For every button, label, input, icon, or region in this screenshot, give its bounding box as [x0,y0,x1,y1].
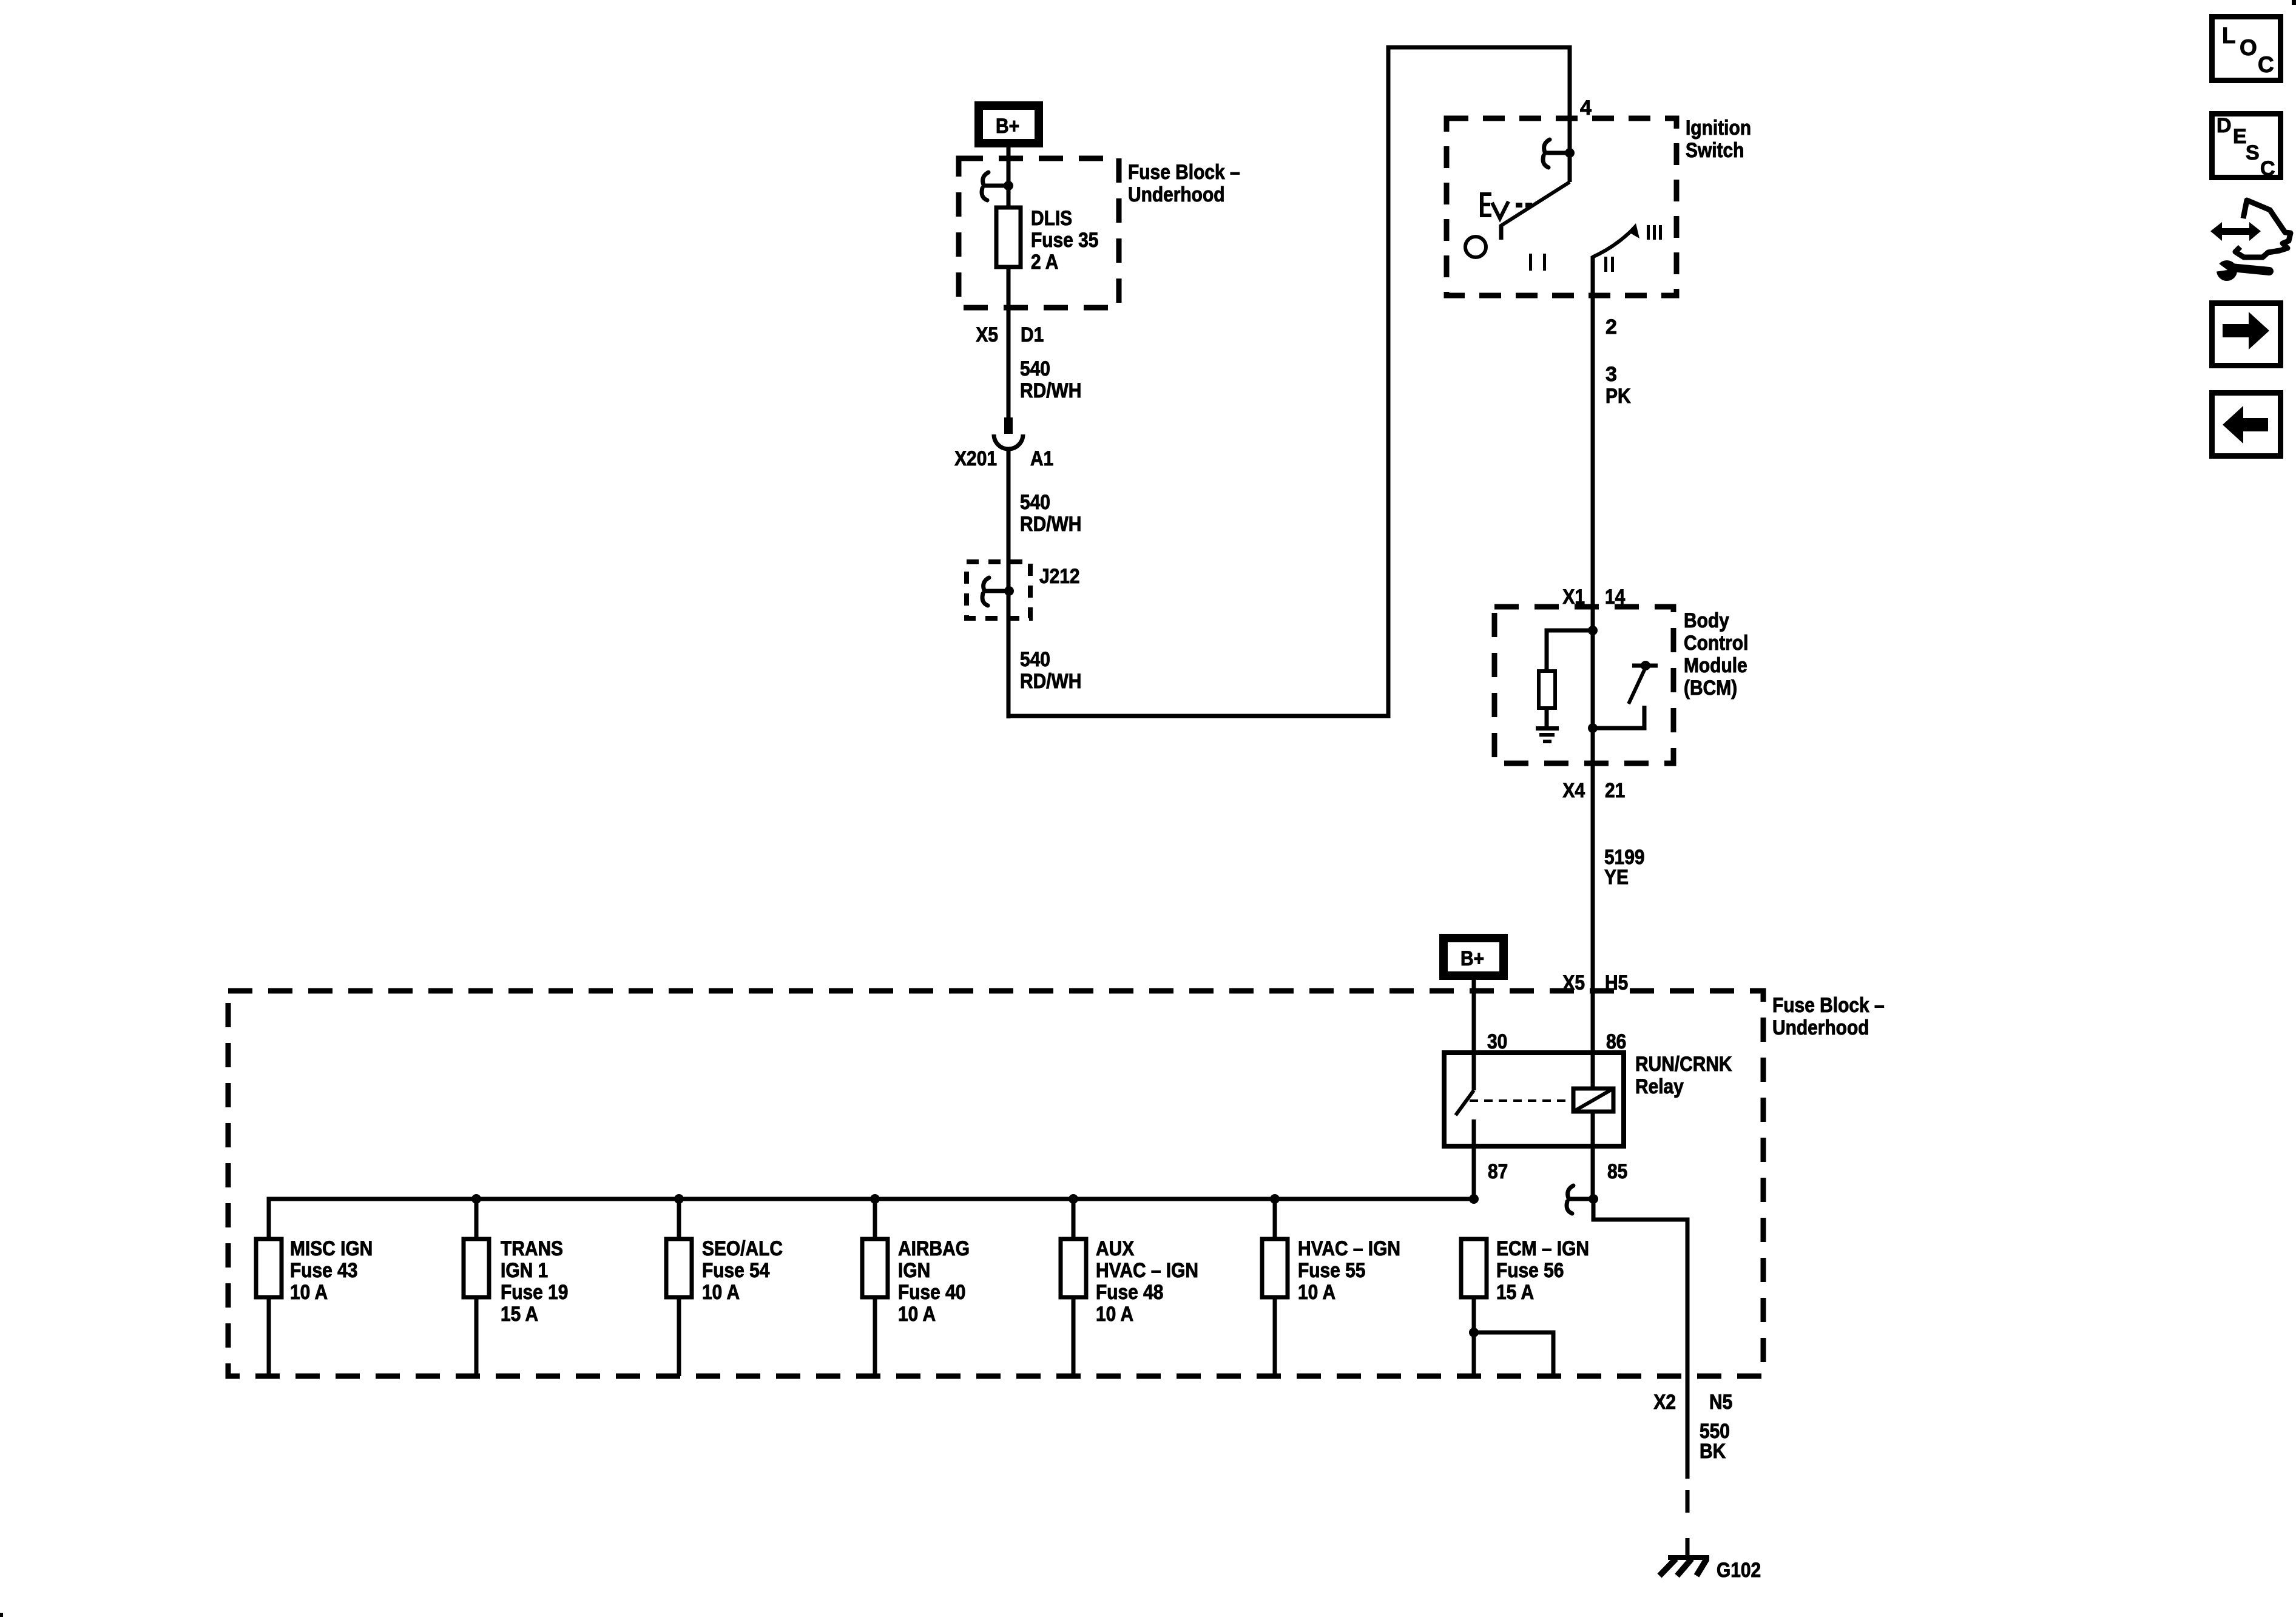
svg-text:Fuse 55: Fuse 55 [1298,1259,1365,1282]
svg-text:HVAC – IGN: HVAC – IGN [1096,1259,1198,1282]
svg-text:HVAC – IGN: HVAC – IGN [1298,1237,1400,1260]
svg-text:Fuse 48: Fuse 48 [1096,1281,1163,1304]
svg-text:D1: D1 [1021,323,1044,346]
svg-text:10 A: 10 A [898,1303,936,1326]
svg-text:ECM – IGN: ECM – IGN [1496,1237,1589,1260]
svg-text:10 A: 10 A [1298,1281,1335,1304]
svg-text:TRANS: TRANS [501,1237,563,1260]
svg-text:B+: B+ [1460,947,1484,970]
svg-text:Fuse Block –: Fuse Block – [1772,994,1885,1017]
svg-text:(BCM): (BCM) [1684,677,1737,700]
svg-text:Fuse Block –: Fuse Block – [1128,161,1240,184]
svg-text:X4: X4 [1562,779,1585,802]
svg-text:X5: X5 [976,323,998,346]
svg-text:RD/WH: RD/WH [1020,513,1081,536]
svg-text:RD/WH: RD/WH [1020,379,1081,402]
svg-text:AIRBAG: AIRBAG [898,1237,970,1260]
svg-text:10 A: 10 A [702,1281,740,1304]
svg-text:AUX: AUX [1096,1237,1134,1260]
svg-text:DLIS: DLIS [1031,207,1072,230]
svg-text:SEO/ALC: SEO/ALC [702,1237,783,1260]
svg-text:Ignition: Ignition [1686,116,1751,140]
svg-text:IGN 1: IGN 1 [501,1259,548,1282]
svg-text:RUN/CRNK: RUN/CRNK [1635,1053,1732,1076]
svg-text:X201: X201 [954,447,997,470]
svg-text:87: 87 [1488,1160,1508,1183]
svg-text:30: 30 [1487,1030,1507,1053]
svg-text:O: O [2240,35,2257,60]
svg-text:15 A: 15 A [501,1303,538,1326]
svg-text:Underhood: Underhood [1128,183,1225,206]
svg-text:Fuse 56: Fuse 56 [1496,1259,1564,1282]
svg-text:L: L [2222,23,2236,48]
svg-text:IGN: IGN [898,1259,930,1282]
svg-text:X2: X2 [1653,1391,1676,1414]
svg-text:2 A: 2 A [1031,251,1058,274]
svg-text:10 A: 10 A [1096,1303,1133,1326]
svg-text:86: 86 [1606,1030,1626,1053]
svg-text:Underhood: Underhood [1772,1016,1869,1039]
svg-text:B+: B+ [996,115,1019,138]
svg-text:PK: PK [1606,385,1631,408]
svg-text:10 A: 10 A [290,1281,328,1304]
svg-text:MISC IGN: MISC IGN [290,1237,373,1260]
svg-text:C: C [2260,157,2275,180]
svg-text:15 A: 15 A [1496,1281,1534,1304]
svg-text:2: 2 [1606,316,1617,339]
svg-text:85: 85 [1607,1160,1627,1183]
svg-text:Fuse 43: Fuse 43 [290,1259,357,1282]
svg-text:Fuse 54: Fuse 54 [702,1259,769,1282]
svg-text:Module: Module [1684,654,1747,677]
svg-text:YE: YE [1604,866,1629,889]
svg-text:Control: Control [1684,632,1748,655]
svg-text:E: E [2233,125,2247,148]
svg-text:C: C [2258,52,2274,77]
svg-text:Body: Body [1684,609,1729,632]
svg-text:BK: BK [1700,1440,1726,1463]
svg-text:Fuse 40: Fuse 40 [898,1281,965,1304]
svg-text:21: 21 [1605,779,1625,802]
svg-text:Fuse 35: Fuse 35 [1031,229,1098,252]
svg-text:Relay: Relay [1635,1075,1684,1098]
svg-text:540: 540 [1020,648,1050,671]
svg-text:A1: A1 [1030,447,1053,470]
svg-text:3: 3 [1606,363,1617,386]
svg-text:Fuse 19: Fuse 19 [501,1281,568,1304]
svg-text:D: D [2217,114,2232,137]
svg-text:540: 540 [1020,491,1050,514]
svg-text:J212: J212 [1039,565,1080,588]
svg-text:RD/WH: RD/WH [1020,670,1081,693]
svg-text:N5: N5 [1709,1391,1732,1414]
svg-text:4: 4 [1580,96,1592,120]
svg-text:S: S [2246,141,2260,164]
svg-text:540: 540 [1020,357,1050,380]
svg-text:G102: G102 [1717,1559,1761,1582]
svg-text:Switch: Switch [1686,139,1744,162]
